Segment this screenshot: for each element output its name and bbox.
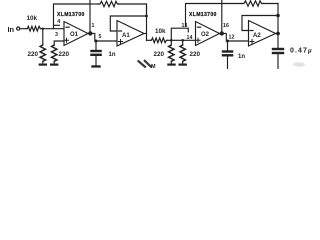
svg-text:A2: A2 (253, 33, 261, 39)
node junction R6 (170, 39, 173, 42)
IC U2 box outline (partial) (186, 4, 222, 27)
wire to R5 (147, 39, 151, 41)
resistor R5 10k (series, horizontal) (150, 38, 168, 43)
node O1 output junction (88, 31, 92, 35)
op-amp O1 (OTA, triangle) (64, 22, 88, 46)
resistor R4 (feedback, horizontal top) (98, 1, 119, 6)
buffer A1 (triangle) (117, 21, 144, 47)
IC U1 box outline (partial) (54, 4, 91, 29)
svg-text:13: 13 (182, 23, 188, 29)
wire C2 top stub (227, 41, 229, 50)
node capacitor junction (95, 40, 98, 43)
wire Iabc pin 1 vertical (top) (89, 0, 91, 32)
wire R4 to A1 output node (119, 4, 147, 16)
wire O1 output step to A1 (93, 33, 118, 41)
op-amp O2 (OTA, triangle) (196, 22, 220, 46)
wire step up to pin 13 (171, 28, 188, 40)
wire R6 to ground (170, 61, 172, 63)
svg-text:O1: O1 (70, 32, 79, 38)
O1 plus input mark (65, 38, 69, 42)
svg-text:12: 12 (229, 35, 235, 41)
capacitor C2 plates (222, 50, 234, 52)
wire C2 bottom stub (runs off image) (227, 57, 229, 70)
wire R3 step to O1 + input (54, 41, 64, 45)
svg-text:10k: 10k (155, 28, 166, 35)
node A2 output junction (276, 32, 280, 36)
wire C3 bottom stub (runs off image) (277, 54, 279, 69)
O1 minus input mark (66, 26, 69, 28)
svg-text:3: 3 (55, 32, 58, 38)
wire A2 feedback loop (242, 16, 278, 31)
wire R6 stub (170, 40, 172, 45)
svg-text:1: 1 (92, 23, 95, 29)
svg-text:A1: A1 (122, 33, 130, 39)
O2 minus input mark (198, 26, 201, 28)
ground (R6) (167, 64, 175, 66)
capacitor C3 plates (272, 48, 284, 50)
wire R7 to ground (182, 61, 184, 63)
svg-text:1n: 1n (109, 52, 116, 58)
watermark stroke 2 (145, 61, 151, 67)
resistor R3 220 (vertical to ground) (52, 45, 57, 61)
node O2 output junction (220, 31, 224, 35)
svg-text:220: 220 (28, 51, 39, 58)
ground (R3) (50, 64, 58, 66)
wire A2 output (276, 33, 279, 35)
svg-text:XLM13700: XLM13700 (57, 12, 85, 18)
node In: input terminal (17, 27, 20, 30)
resistor R8 (feedback, horizontal top) (242, 1, 263, 6)
wire R2 to ground (42, 61, 44, 63)
svg-text:10k: 10k (27, 15, 38, 22)
wire Iabc pin 16 vertical (top) (221, 0, 223, 32)
svg-text:14: 14 (187, 35, 193, 41)
wire In terminal to R1 (20, 28, 26, 30)
node A1 loop corner (145, 15, 148, 18)
ground (R2) (39, 64, 47, 66)
resistor R6 220 (vertical to ground) (169, 45, 174, 61)
wire A1 feedback loop (110, 16, 146, 31)
node A2 loop junction (276, 14, 280, 18)
svg-text:In: In (8, 25, 15, 34)
wire A1 output to vertical bus (144, 33, 147, 35)
svg-text:M: M (151, 64, 156, 69)
wire pin 4 tick (54, 24, 60, 26)
buffer A2 (triangle) (249, 21, 276, 47)
A1 plus input mark (119, 40, 123, 44)
O2 plus input mark (196, 38, 200, 42)
wire R3 to ground (53, 61, 55, 63)
wire R8 to A2 output node (263, 3, 279, 5)
junction on input wire (42, 28, 44, 30)
ground (C1) (91, 65, 100, 67)
resistor R2 220 (vertical to ground) (40, 45, 45, 61)
svg-text:220: 220 (190, 51, 201, 58)
node capacitor C2 junction (226, 40, 229, 43)
A1 minus input mark (119, 30, 122, 32)
wire C1 top stub (95, 41, 97, 50)
wire feedback top run (90, 3, 98, 5)
svg-text:5: 5 (99, 34, 102, 40)
watermark stroke 1 (139, 61, 146, 67)
wire O2 output step to A2 (224, 33, 249, 41)
wire feedback top run stage 2 (222, 3, 242, 5)
svg-text:16: 16 (223, 23, 229, 29)
A2 plus input mark (250, 40, 254, 44)
A2 minus input mark (250, 30, 253, 32)
svg-text:220: 220 (154, 51, 165, 58)
wire junction down to R2 (42, 29, 44, 45)
faint smudge bottom right (293, 62, 305, 67)
wire R5 to O2 + input (168, 39, 196, 41)
wire A2 output vertical to C3 (277, 4, 279, 48)
svg-text:O2: O2 (201, 32, 210, 38)
svg-text:4: 4 (57, 19, 60, 25)
svg-text:XLM13700: XLM13700 (189, 12, 217, 18)
wire R7 stub (182, 40, 184, 45)
ground (R7) (179, 64, 187, 66)
resistor R1 10k (series input, horizontal) (26, 26, 41, 31)
svg-text:0.47μ: 0.47μ (290, 48, 313, 55)
svg-text:220: 220 (59, 51, 70, 58)
wire R1 to O1 input (42, 28, 64, 30)
wire A1 output vertical (146, 4, 148, 41)
resistor R7 220 (vertical to ground) (180, 45, 185, 61)
wire C1 bottom stub (95, 56, 97, 65)
node junction R7 (181, 39, 184, 42)
svg-text:1n: 1n (238, 54, 245, 60)
capacitor C1 plates (90, 50, 102, 52)
